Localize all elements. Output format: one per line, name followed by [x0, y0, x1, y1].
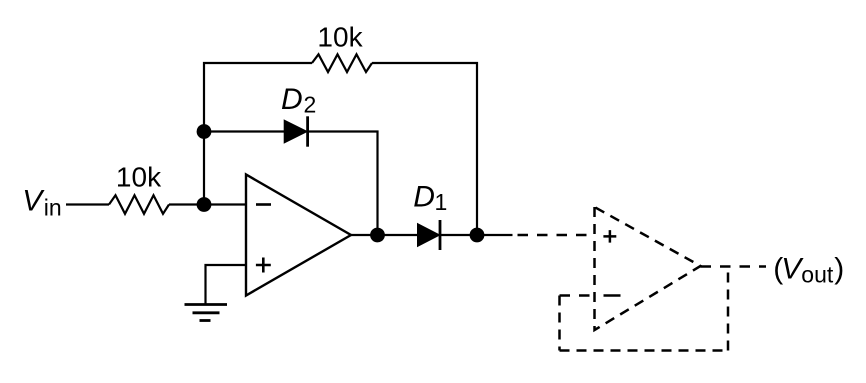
node feedback tap right: [470, 228, 485, 243]
wire non-inverting input to ground: [206, 265, 247, 304]
dashed wire output: [701, 265, 767, 268]
node junction input / feedback: [197, 197, 212, 212]
svg-text:V: V: [22, 185, 45, 218]
ground: [185, 305, 228, 321]
svg-text:1: 1: [435, 189, 448, 215]
svg-text:2: 2: [304, 91, 317, 117]
wire D1 cathode to dashed section: [440, 234, 513, 236]
dashed wire to second op-amp non-inverting input: [518, 234, 595, 237]
wire op-amp output to D1: [351, 234, 419, 236]
op-amp U2 inverting input marker: [604, 294, 621, 297]
op-amp U2 (dashed): [595, 207, 701, 330]
dashed feedback box bottom: [560, 349, 729, 352]
op-amp U1: [246, 175, 351, 296]
node junction feedback / D2 tap: [197, 124, 212, 139]
op-amp U2 non-inverting input marker: [603, 230, 616, 243]
svg-text:out: out: [801, 261, 834, 287]
dashed feedback box right (output feedback): [727, 267, 730, 351]
label Vin: [22, 185, 61, 221]
dashed wire inverting input: [560, 294, 595, 297]
wire top right segment + feedback right vertical: [372, 63, 477, 235]
svg-text:D: D: [413, 181, 435, 214]
resistor 10k feedback: [312, 54, 372, 72]
svg-text:10k: 10k: [116, 162, 162, 193]
op-amp U1 non-inverting input marker: [256, 258, 271, 273]
op-amp U1 inverting input marker: [256, 203, 271, 206]
wire input from Vin: [66, 203, 109, 205]
diode D1: [418, 220, 440, 250]
wire D2 cathode lead + down to output node: [308, 132, 378, 236]
diode D2: [285, 116, 308, 146]
svg-text:): ): [834, 253, 844, 286]
resistor 10k input: [109, 195, 169, 214]
svg-text:in: in: [44, 194, 62, 220]
label D1: [413, 181, 447, 216]
svg-text:10k: 10k: [317, 22, 363, 53]
node output: [370, 228, 385, 243]
svg-text:D: D: [281, 83, 303, 116]
dashed feedback box left: [558, 296, 561, 351]
wire input resistor to inverting input: [169, 203, 246, 205]
label D2: [281, 83, 316, 118]
wire feedback left vertical + top left segment: [204, 63, 312, 205]
wire D2 anode lead: [204, 130, 286, 132]
